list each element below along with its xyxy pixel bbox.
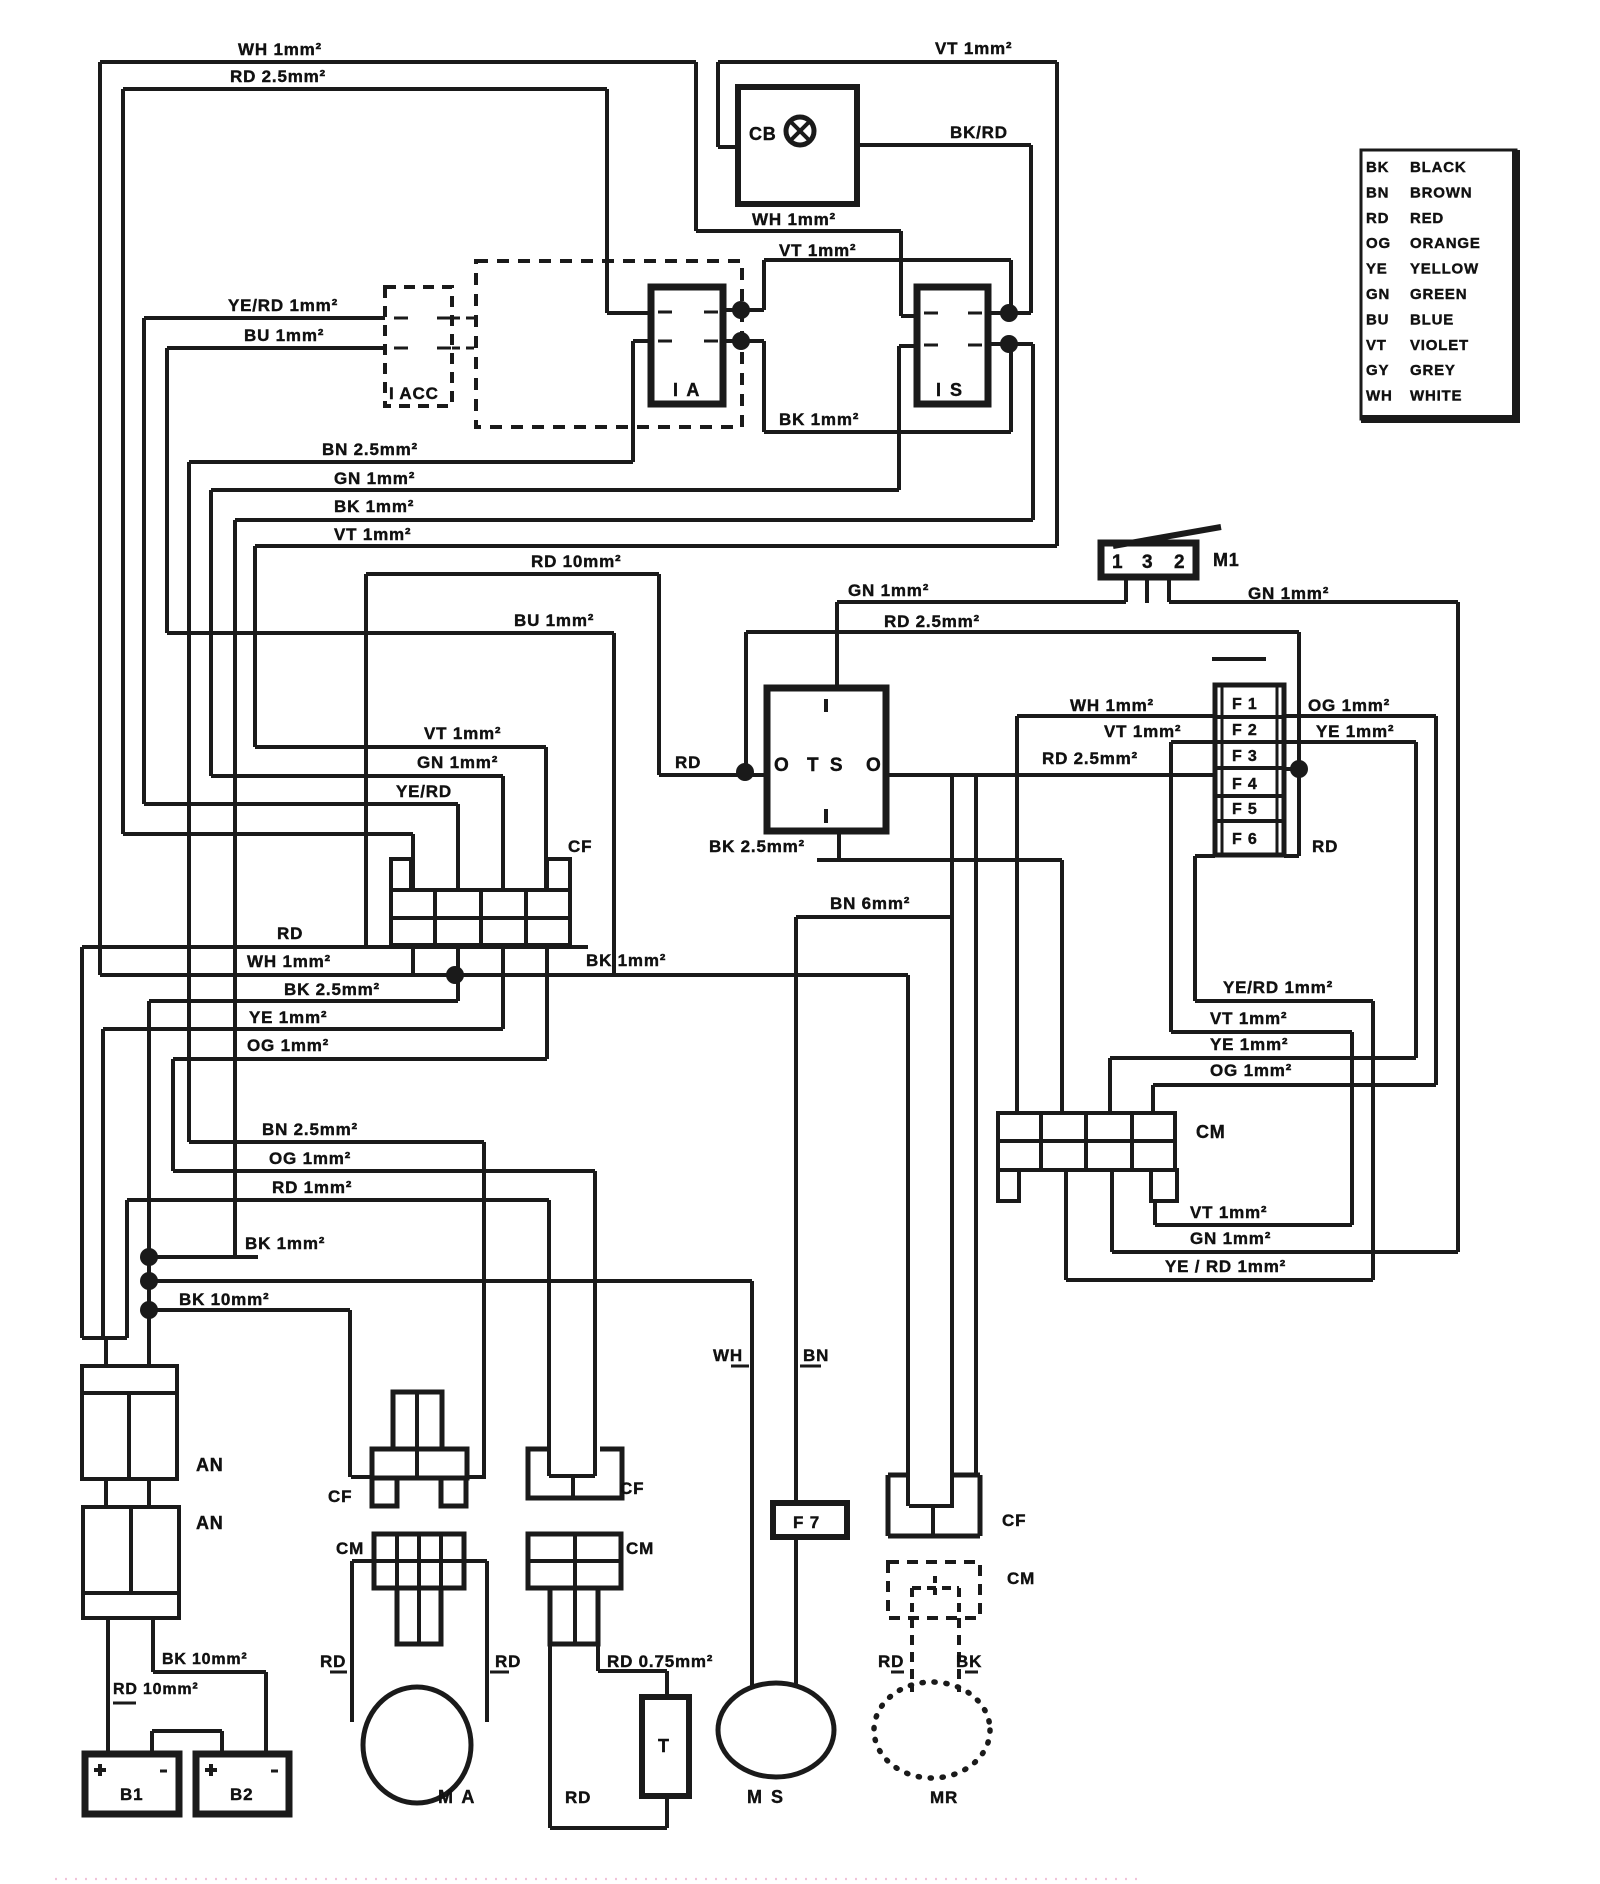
svg-text:RD: RD	[1312, 837, 1338, 856]
svg-text:GN: GN	[1366, 286, 1390, 303]
svg-text:F 3: F 3	[1232, 748, 1258, 765]
svg-text:RD 10mm²: RD 10mm²	[113, 1681, 199, 1698]
svg-text:YE/RD 1mm²: YE/RD 1mm²	[228, 296, 338, 315]
svg-text:OG 1mm²: OG 1mm²	[1308, 696, 1390, 715]
svg-text:GN 1mm²: GN 1mm²	[848, 581, 929, 600]
svg-text:WH 1mm²: WH 1mm²	[238, 40, 322, 59]
svg-text:F 7: F 7	[793, 1513, 820, 1532]
svg-text:WH: WH	[713, 1346, 743, 1365]
svg-text:BU 1mm²: BU 1mm²	[514, 611, 594, 630]
svg-text:I A: I A	[673, 380, 701, 400]
svg-text:BROWN: BROWN	[1410, 184, 1472, 201]
svg-text:I S: I S	[936, 380, 964, 400]
svg-text:RD: RD	[277, 924, 303, 943]
svg-text:BK 1mm²: BK 1mm²	[334, 497, 414, 516]
svg-text:VT 1mm²: VT 1mm²	[334, 525, 411, 544]
svg-text:BK 2.5mm²: BK 2.5mm²	[284, 980, 380, 999]
svg-text:CF: CF	[568, 837, 592, 856]
svg-text:RED: RED	[1410, 210, 1444, 227]
svg-text:I ACC: I ACC	[389, 384, 439, 403]
svg-text:VT 1mm²: VT 1mm²	[779, 241, 856, 260]
svg-text:RD 1mm²: RD 1mm²	[272, 1178, 352, 1197]
svg-text:BN 2.5mm²: BN 2.5mm²	[322, 440, 418, 459]
svg-text:BK 1mm²: BK 1mm²	[779, 410, 859, 429]
svg-text:BK 2.5mm²: BK 2.5mm²	[709, 837, 805, 856]
svg-text:BK 10mm²: BK 10mm²	[179, 1290, 269, 1309]
svg-text:VT: VT	[1366, 337, 1387, 354]
svg-text:RD 2.5mm²: RD 2.5mm²	[230, 67, 326, 86]
svg-text:RD 10mm²: RD 10mm²	[531, 552, 621, 571]
svg-text:VT 1mm²: VT 1mm²	[424, 724, 501, 743]
svg-text:BK: BK	[956, 1652, 982, 1671]
svg-text:BN 2.5mm²: BN 2.5mm²	[262, 1120, 358, 1139]
svg-text:VIOLET: VIOLET	[1410, 337, 1469, 354]
svg-text:BK 1mm²: BK 1mm²	[586, 951, 666, 970]
svg-text:CM: CM	[1007, 1569, 1035, 1588]
svg-text:RD 0.75mm²: RD 0.75mm²	[607, 1652, 713, 1671]
svg-text:CM: CM	[336, 1539, 364, 1558]
svg-text:CM: CM	[1196, 1122, 1226, 1142]
svg-text:GY: GY	[1366, 362, 1389, 379]
svg-text:YE / RD 1mm²: YE / RD 1mm²	[1165, 1257, 1286, 1276]
svg-text:BK: BK	[1366, 159, 1389, 176]
svg-text:GREEN: GREEN	[1410, 286, 1467, 303]
svg-text:RD: RD	[878, 1652, 904, 1671]
svg-text:M S: M S	[747, 1787, 785, 1807]
svg-text:B1: B1	[120, 1785, 143, 1804]
svg-text:VT 1mm²: VT 1mm²	[1104, 722, 1181, 741]
svg-text:YE/RD: YE/RD	[396, 782, 452, 801]
svg-text:VT 1mm²: VT 1mm²	[1210, 1009, 1287, 1028]
svg-text:CF: CF	[328, 1487, 352, 1506]
svg-text:M A: M A	[438, 1787, 476, 1807]
svg-text:YE 1mm²: YE 1mm²	[1210, 1035, 1288, 1054]
svg-text:GN 1mm²: GN 1mm²	[1248, 584, 1329, 603]
svg-text:BK/RD: BK/RD	[950, 123, 1008, 142]
svg-text:VT 1mm²: VT 1mm²	[935, 39, 1012, 58]
svg-text:AN: AN	[196, 1455, 224, 1475]
svg-text:GN 1mm²: GN 1mm²	[334, 469, 415, 488]
svg-text:GN 1mm²: GN 1mm²	[417, 753, 498, 772]
svg-text:RD: RD	[495, 1652, 521, 1671]
svg-text:F 1: F 1	[1232, 696, 1258, 713]
svg-text:YE/RD 1mm²: YE/RD 1mm²	[1223, 978, 1333, 997]
svg-text:BK 1mm²: BK 1mm²	[245, 1234, 325, 1253]
svg-text:YE: YE	[1366, 261, 1388, 278]
svg-text:ORANGE: ORANGE	[1410, 235, 1481, 252]
svg-text:RD: RD	[320, 1652, 346, 1671]
svg-text:RD: RD	[565, 1788, 591, 1807]
svg-text:GN 1mm²: GN 1mm²	[1190, 1229, 1271, 1248]
svg-text:B2: B2	[230, 1785, 253, 1804]
svg-text:BK 10mm²: BK 10mm²	[162, 1651, 248, 1668]
svg-text:2: 2	[1174, 552, 1185, 573]
svg-text:BLUE: BLUE	[1410, 311, 1454, 328]
svg-text:BN: BN	[1366, 184, 1389, 201]
svg-text:AN: AN	[196, 1513, 224, 1533]
svg-text:3: 3	[1142, 552, 1153, 573]
svg-text:T S: T S	[807, 755, 846, 776]
svg-text:VT 1mm²: VT 1mm²	[1190, 1203, 1267, 1222]
svg-text:RD 2.5mm²: RD 2.5mm²	[884, 612, 980, 631]
svg-text:WH 1mm²: WH 1mm²	[752, 210, 836, 229]
svg-text:MR: MR	[930, 1788, 958, 1807]
svg-text:OG 1mm²: OG 1mm²	[269, 1149, 351, 1168]
svg-text:OG 1mm²: OG 1mm²	[1210, 1061, 1292, 1080]
svg-text:CF: CF	[620, 1479, 644, 1498]
svg-text:M1: M1	[1213, 550, 1240, 570]
svg-text:YE 1mm²: YE 1mm²	[1316, 722, 1394, 741]
svg-text:WHITE: WHITE	[1410, 388, 1462, 405]
svg-text:WH 1mm²: WH 1mm²	[1070, 696, 1154, 715]
svg-text:T: T	[658, 1736, 670, 1756]
svg-text:1: 1	[1112, 552, 1123, 573]
svg-text:F 2: F 2	[1232, 722, 1258, 739]
svg-text:RD: RD	[1366, 210, 1389, 227]
svg-text:F 4: F 4	[1232, 776, 1258, 793]
svg-text:F 6: F 6	[1232, 831, 1258, 848]
svg-text:BU 1mm²: BU 1mm²	[244, 326, 324, 345]
svg-text:CM: CM	[626, 1539, 654, 1558]
svg-text:CF: CF	[1002, 1511, 1026, 1530]
svg-text:RD 2.5mm²: RD 2.5mm²	[1042, 749, 1138, 768]
svg-text:OG 1mm²: OG 1mm²	[247, 1036, 329, 1055]
svg-text:BU: BU	[1366, 311, 1389, 328]
svg-text:YELLOW: YELLOW	[1410, 261, 1479, 278]
svg-text:RD: RD	[675, 753, 701, 772]
svg-text:F 5: F 5	[1232, 801, 1258, 818]
svg-text:BN: BN	[803, 1346, 829, 1365]
svg-text:O: O	[866, 755, 882, 776]
svg-text:WH: WH	[1366, 388, 1393, 405]
svg-text:YE 1mm²: YE 1mm²	[249, 1008, 327, 1027]
svg-text:BN 6mm²: BN 6mm²	[830, 894, 910, 913]
svg-text:CB: CB	[749, 124, 777, 144]
svg-text:O: O	[774, 755, 790, 776]
svg-text:GREY: GREY	[1410, 362, 1456, 379]
svg-text:WH 1mm²: WH 1mm²	[247, 952, 331, 971]
svg-text:BLACK: BLACK	[1410, 159, 1467, 176]
svg-text:OG: OG	[1366, 235, 1391, 252]
